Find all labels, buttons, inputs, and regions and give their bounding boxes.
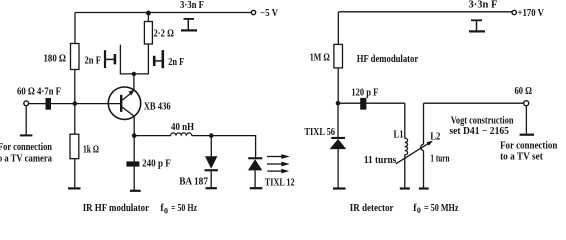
svg-text:1M Ω: 1M Ω <box>310 53 330 64</box>
svg-text:For connection: For connection <box>0 142 52 153</box>
svg-text:BA 187: BA 187 <box>179 176 208 187</box>
svg-text:1 turn: 1 turn <box>430 154 449 165</box>
svg-text:= 50 Hz: = 50 Hz <box>171 203 197 214</box>
svg-text:L1: L1 <box>394 130 404 141</box>
svg-text:2n F: 2n F <box>168 57 184 68</box>
svg-text:3·3n F: 3·3n F <box>180 0 204 11</box>
svg-text:+170 V: +170 V <box>518 8 545 19</box>
svg-text:240 p F: 240 p F <box>142 159 171 170</box>
svg-text:0: 0 <box>417 206 421 215</box>
svg-text:3·3n F: 3·3n F <box>469 0 498 11</box>
svg-text:L2: L2 <box>430 132 440 143</box>
svg-text:XB 436: XB 436 <box>144 101 171 112</box>
svg-text:−5 V: −5 V <box>260 8 279 19</box>
svg-text:1k Ω: 1k Ω <box>83 145 99 156</box>
svg-text:to a TV camera: to a TV camera <box>0 153 52 164</box>
svg-text:60 Ω 4·7n F: 60 Ω 4·7n F <box>17 87 61 98</box>
svg-text:60 Ω: 60 Ω <box>515 86 533 97</box>
svg-text:TIXL 12: TIXL 12 <box>265 178 295 189</box>
svg-text:= 50 MHz: = 50 MHz <box>424 203 459 214</box>
svg-text:set D41 − 2165: set D41 − 2165 <box>449 126 509 137</box>
svg-text:For connection: For connection <box>500 141 558 152</box>
svg-text:to a TV set: to a TV set <box>500 152 543 163</box>
svg-text:IR detector: IR detector <box>350 203 394 214</box>
svg-text:TIXL 56: TIXL 56 <box>304 127 335 138</box>
svg-text:11 turns: 11 turns <box>364 155 396 166</box>
svg-text:2·2 Ω: 2·2 Ω <box>154 29 175 40</box>
svg-text:IR HF modulator: IR HF modulator <box>83 203 150 214</box>
svg-text:2n F: 2n F <box>85 56 102 67</box>
svg-text:180 Ω: 180 Ω <box>44 54 67 65</box>
svg-text:HF demodulator: HF demodulator <box>357 54 419 65</box>
svg-text:40 nH: 40 nH <box>171 122 194 133</box>
svg-text:0: 0 <box>164 207 168 216</box>
svg-text:120 p F: 120 p F <box>351 88 378 99</box>
